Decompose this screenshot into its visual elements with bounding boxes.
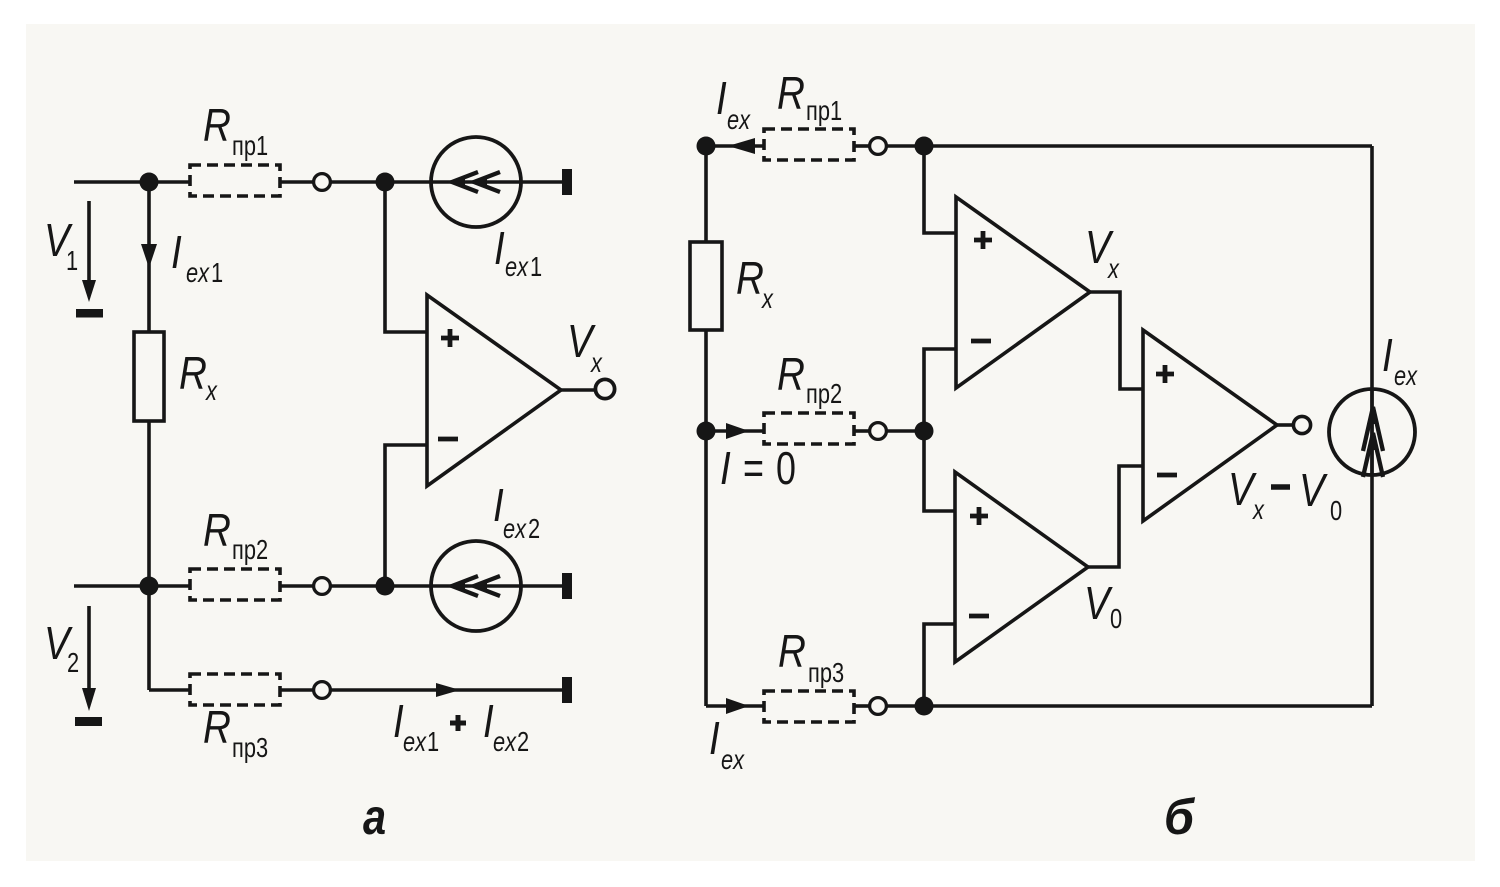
svg-text:I: I [494, 223, 505, 274]
svg-text:ex: ex [186, 257, 210, 288]
svg-text:б: б [1164, 789, 1196, 845]
svg-text:R: R [203, 702, 231, 753]
svg-text:x: x [761, 283, 774, 314]
svg-text:пр1: пр1 [232, 130, 268, 161]
svg-text:V: V [1299, 465, 1328, 516]
svg-text:x: x [590, 347, 603, 378]
svg-text:I: I [1382, 330, 1393, 381]
svg-text:R: R [777, 68, 805, 119]
svg-text:x: x [205, 375, 218, 406]
svg-text:I: I [171, 227, 182, 278]
svg-text:I: I [720, 443, 731, 494]
svg-text:R: R [778, 626, 806, 677]
svg-text:а: а [363, 788, 386, 845]
svg-text:ex: ex [1394, 360, 1418, 391]
svg-text:I: I [709, 713, 720, 764]
svg-text:=: = [743, 443, 764, 494]
svg-text:2: 2 [517, 726, 529, 757]
svg-text:I: I [716, 73, 727, 124]
svg-text:V: V [1084, 578, 1113, 629]
svg-text:1: 1 [427, 726, 439, 757]
svg-text:2: 2 [67, 647, 79, 678]
svg-text:1: 1 [66, 245, 78, 276]
svg-text:R: R [179, 348, 207, 399]
svg-text:пр3: пр3 [808, 657, 844, 688]
svg-text:1: 1 [530, 251, 542, 282]
svg-text:пр1: пр1 [806, 95, 842, 126]
svg-text:R: R [777, 349, 805, 400]
svg-text:0: 0 [1110, 603, 1122, 634]
svg-text:пр2: пр2 [232, 534, 268, 565]
svg-text:пр2: пр2 [806, 378, 842, 409]
svg-text:ex: ex [505, 251, 529, 282]
svg-text:ex: ex [727, 104, 751, 135]
svg-text:0: 0 [1330, 495, 1342, 526]
svg-text:ex: ex [503, 513, 527, 544]
svg-text:R: R [736, 253, 764, 304]
svg-text:R: R [203, 505, 231, 556]
svg-text:пр3: пр3 [232, 732, 268, 763]
svg-text:x: x [1107, 253, 1120, 284]
svg-text:0: 0 [776, 443, 796, 494]
svg-text:1: 1 [211, 257, 223, 288]
svg-text:ex: ex [493, 726, 517, 757]
svg-text:2: 2 [528, 513, 540, 544]
svg-text:ex: ex [721, 744, 745, 775]
svg-text:x: x [1252, 494, 1265, 525]
svg-text:R: R [203, 100, 231, 151]
svg-text:ex: ex [403, 726, 427, 757]
